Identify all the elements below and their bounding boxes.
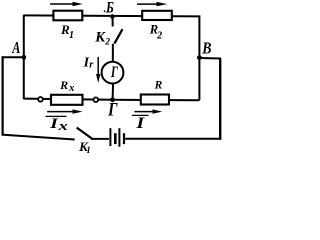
svg-text:А: А <box>11 39 20 57</box>
svg-text:R: R <box>154 80 163 92</box>
svg-text:x: x <box>57 119 68 133</box>
svg-text:R: R <box>59 78 68 92</box>
svg-text:x: x <box>68 83 74 94</box>
svg-text:Б: Б <box>105 0 114 17</box>
svg-text:1: 1 <box>69 30 74 41</box>
svg-text:2: 2 <box>156 31 162 42</box>
svg-text:2: 2 <box>104 38 110 48</box>
svg-text:Г: Г <box>107 99 118 119</box>
svg-text:В: В <box>201 39 211 58</box>
svg-text:Г: Г <box>110 64 118 81</box>
svg-text:1: 1 <box>86 145 91 155</box>
svg-text:I: I <box>135 114 145 131</box>
